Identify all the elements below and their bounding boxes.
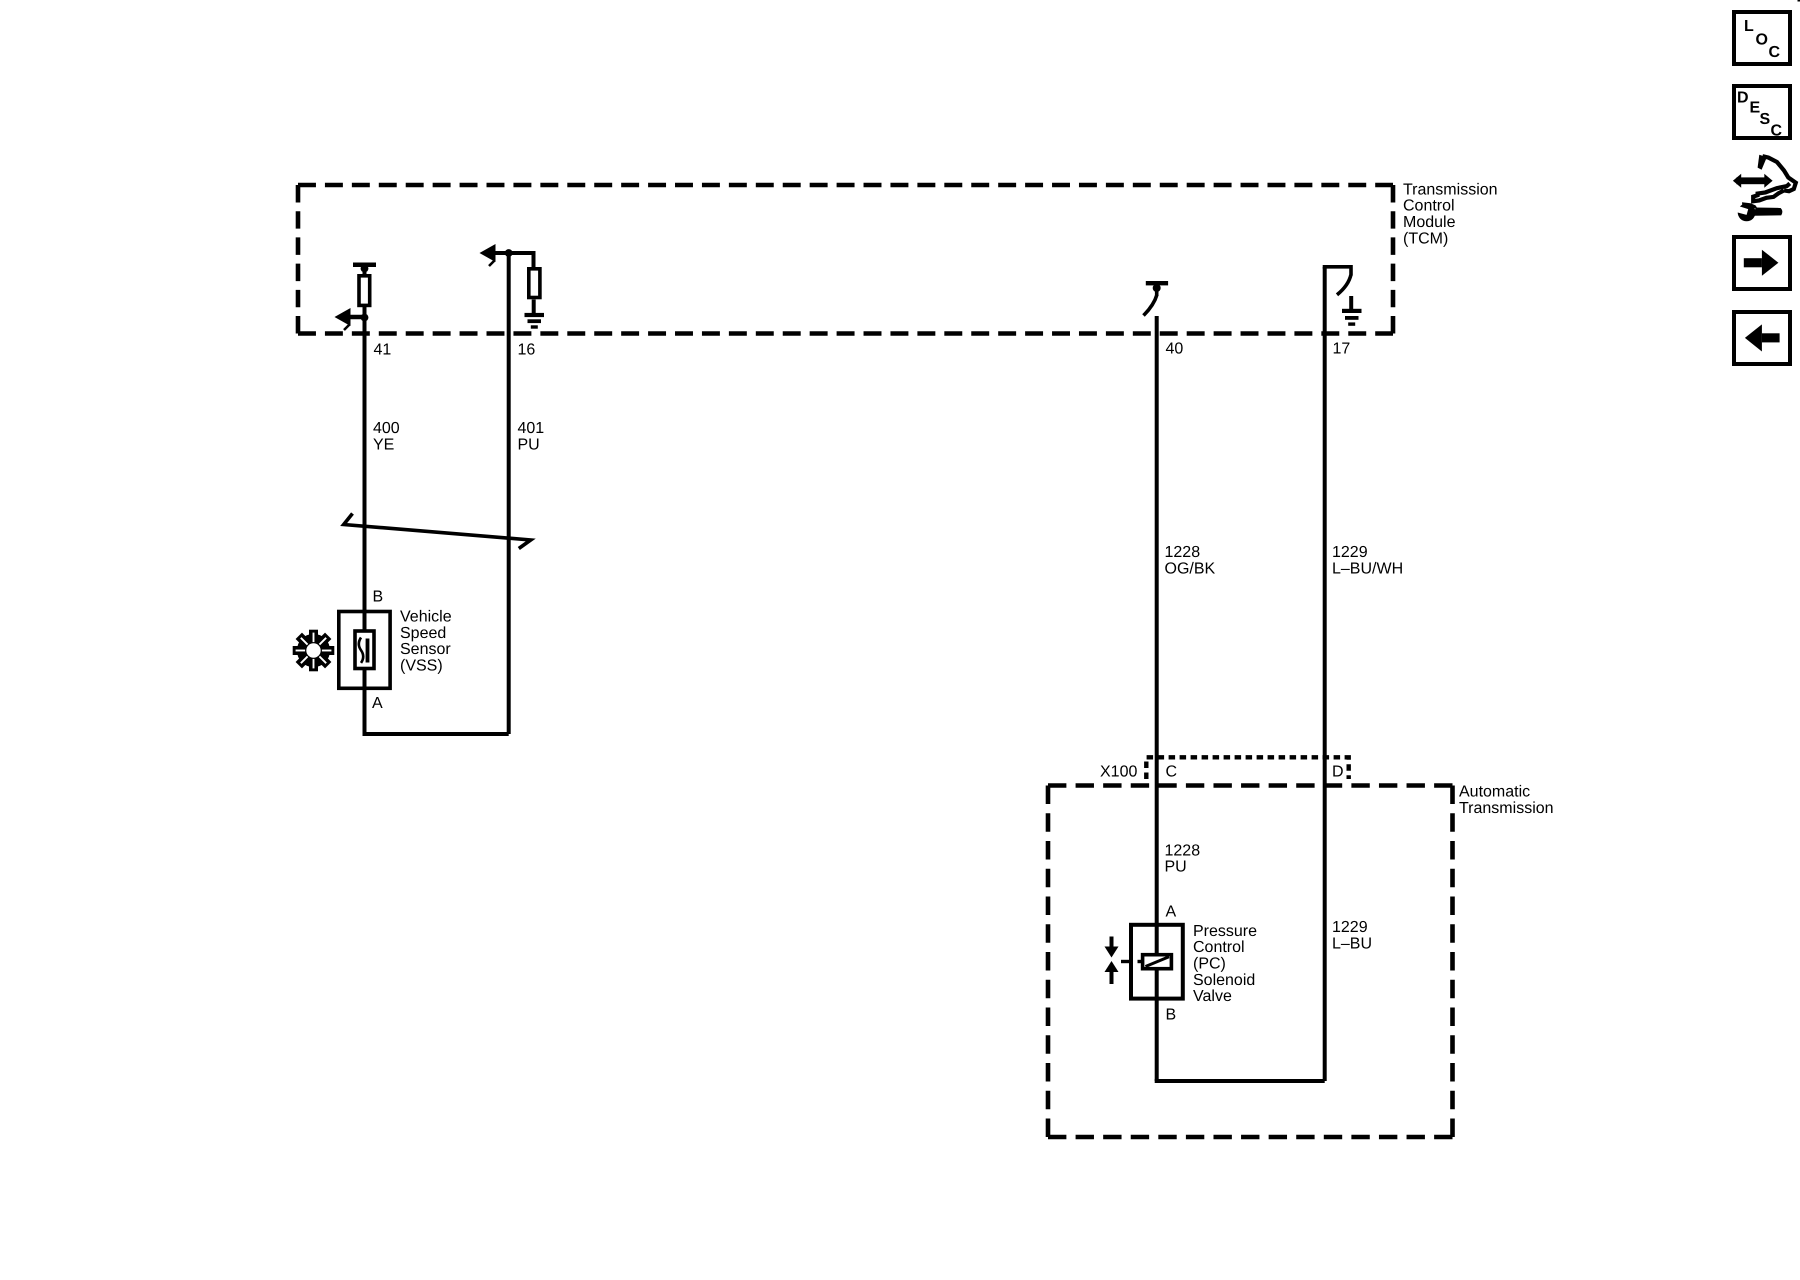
svg-text:C: C bbox=[1769, 44, 1781, 61]
twisted-pair crossing slash bbox=[344, 514, 531, 549]
svg-text:A: A bbox=[372, 695, 383, 712]
svg-text:B: B bbox=[373, 589, 384, 606]
bottom loop wire bbox=[363, 732, 509, 736]
ground in TCM (pin 17) bbox=[1349, 296, 1353, 310]
svg-text:1229L–BU: 1229L–BU bbox=[1332, 919, 1372, 952]
solenoid coil element bbox=[1143, 955, 1172, 969]
valve symbol (two arrows) bbox=[1121, 960, 1129, 963]
wire VSS A down bbox=[363, 688, 367, 734]
pin 41 top bar bbox=[353, 263, 376, 268]
Automatic Transmission dashed box bbox=[1048, 783, 1453, 788]
pin 41 dot bbox=[361, 265, 369, 273]
resistor R2 bbox=[529, 269, 540, 298]
wire 401 PU bbox=[507, 253, 511, 734]
pin 16 dot bbox=[505, 249, 513, 257]
VSS inner sensor element bbox=[355, 631, 374, 669]
arrow left at pin 41 bbox=[348, 315, 365, 320]
bottom wire in AT box bbox=[1155, 1079, 1325, 1083]
wire inside solenoid box bbox=[1155, 924, 1159, 1082]
svg-text:B: B bbox=[1166, 1007, 1177, 1024]
svg-text:L: L bbox=[1744, 18, 1754, 35]
resistor R1 (VSS signal pull-up) bbox=[359, 276, 370, 306]
pin 16 horizontal + arrow bbox=[493, 253, 534, 267]
svg-text:C: C bbox=[1166, 764, 1178, 781]
sidebar LOC box bbox=[1734, 12, 1790, 64]
svg-text:41: 41 bbox=[374, 342, 392, 359]
svg-text:16: 16 bbox=[518, 342, 536, 359]
wire 1228 OG/BK (pin 40) bbox=[1155, 316, 1159, 924]
sidebar back arrow box bbox=[1734, 312, 1790, 364]
svg-text:C: C bbox=[1771, 123, 1783, 140]
gear icon bbox=[293, 630, 335, 672]
svg-text:17: 17 bbox=[1333, 341, 1351, 358]
wire 1229 L-BU/WH (pin 17) bbox=[1323, 267, 1327, 1081]
corner scan artifact bbox=[1798, 0, 1800, 2]
junction dot pin 41 bbox=[361, 314, 369, 322]
wire 400 YE bbox=[363, 267, 367, 610]
svg-text:D: D bbox=[1737, 90, 1749, 107]
pin 40 terminal bbox=[1146, 281, 1168, 285]
svg-text:O: O bbox=[1756, 32, 1768, 49]
wire inside VSS bbox=[363, 610, 367, 688]
X100 in-line connector bbox=[1146, 757, 1348, 779]
sidebar DESC box bbox=[1734, 86, 1790, 138]
svg-text:X100: X100 bbox=[1100, 764, 1137, 781]
TCM dashed box bbox=[298, 183, 1393, 188]
svg-text:D: D bbox=[1332, 764, 1344, 781]
svg-text:S: S bbox=[1760, 111, 1771, 128]
ground in TCM (pin 16) bbox=[532, 300, 536, 315]
PC solenoid box bbox=[1131, 925, 1183, 999]
Vehicle Speed Sensor box bbox=[339, 612, 390, 689]
sidebar schematic icon (wrench with arrows) bbox=[1733, 155, 1796, 222]
svg-text:40: 40 bbox=[1166, 341, 1184, 358]
sidebar next arrow box bbox=[1734, 237, 1790, 289]
svg-text:A: A bbox=[1166, 904, 1177, 921]
